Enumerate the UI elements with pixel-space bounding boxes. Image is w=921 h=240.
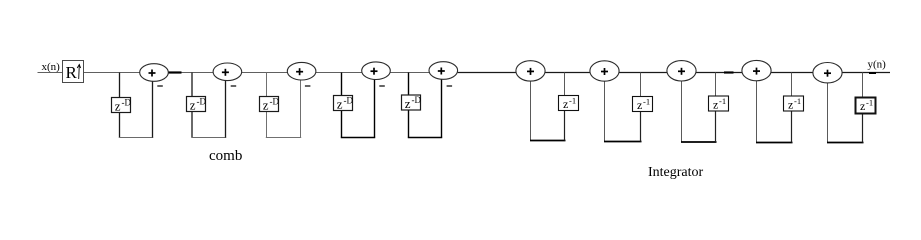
delay D8: integrator delay z^-1 xyxy=(709,96,729,112)
wire: main signal line, comb section xyxy=(38,72,459,74)
adder A3: comb summing junction xyxy=(287,62,316,80)
svg-text:z: z xyxy=(263,98,269,113)
adder A1: comb summing junction xyxy=(140,64,169,82)
adder A4: comb summing junction xyxy=(362,62,391,80)
svg-text:z: z xyxy=(788,98,793,112)
svg-text:z: z xyxy=(713,98,718,112)
wire: comb stage 3 bottom run to adder xyxy=(266,137,301,139)
delay D10: integrator delay z^-1 xyxy=(856,98,876,114)
wire: integrator stage 1 delay output drop to bottom run xyxy=(564,109,566,141)
wire: main signal line, integrator section xyxy=(458,72,890,74)
svg-text:z: z xyxy=(563,97,568,111)
wire: comb stage 1 bottom run to adder xyxy=(119,137,153,139)
wire: bold segment after comb adder A1 xyxy=(168,71,181,73)
delay D2: comb differential delay z^-D xyxy=(187,97,207,113)
block R1: rate-change (upsampler) box R&#8593; xyxy=(63,61,84,83)
delay D1: comb differential delay z^-D xyxy=(112,98,132,114)
adder A8: integrator summing junction xyxy=(667,61,696,81)
wire: integrator stage 1 drop below adder xyxy=(530,81,532,141)
svg-text:y(n): y(n) xyxy=(868,59,887,71)
wire: comb stage 4 tap drop (through delay) xyxy=(341,73,343,138)
wire: integrator stage 3 output tap drop to delay xyxy=(715,73,717,99)
wire: integrator stage 3 feedback bottom run xyxy=(681,141,717,143)
wire: integrator stage 4 delay output drop to bottom run xyxy=(791,109,793,143)
delay D5: comb differential delay z^-D xyxy=(402,95,422,111)
wire: comb stage 2 bottom run to adder xyxy=(191,137,226,139)
wire: integrator stage 5 drop below adder xyxy=(827,82,829,142)
svg-text:-D: -D xyxy=(412,95,422,105)
wire: integrator stage 4 drop below adder xyxy=(756,80,758,142)
wire: integrator stage 2 drop below adder xyxy=(604,81,606,142)
wire: integrator stage 1 output tap drop to delay xyxy=(564,73,566,98)
svg-text:R: R xyxy=(66,63,78,82)
svg-text:z: z xyxy=(637,98,642,112)
svg-text:z: z xyxy=(405,96,411,111)
wire: integrator stage 4 output tap drop to delay xyxy=(791,73,793,99)
wire: integrator stage 5 output tap drop to delay xyxy=(862,73,864,100)
wire: comb stage 5 bottom run to adder xyxy=(408,137,442,139)
adder A10: integrator summing junction xyxy=(813,62,842,82)
wire: integrator stage 5 delay output drop to bottom run xyxy=(862,111,864,143)
svg-text:z: z xyxy=(115,99,121,114)
delay D4: comb differential delay z^-D xyxy=(334,96,354,112)
adder A5: comb summing junction xyxy=(429,62,458,80)
label: minus sign at adder A2 subtract input xyxy=(231,85,237,87)
wire: integrator stage 5 feedback bottom run xyxy=(827,142,864,144)
wire: bold segment before integrator adder A9 xyxy=(724,71,734,73)
svg-text:-D: -D xyxy=(197,97,207,107)
svg-text:-1: -1 xyxy=(719,96,726,106)
svg-text:x(n): x(n) xyxy=(42,61,61,73)
svg-text:-1: -1 xyxy=(794,96,801,106)
delay D7: integrator delay z^-1 xyxy=(633,97,653,113)
label: minus sign at adder A4 subtract input xyxy=(379,85,385,87)
adder A2: comb summing junction xyxy=(213,63,242,81)
wire: integrator stage 3 delay output drop to bottom run xyxy=(715,109,717,142)
wire: integrator stage 1 feedback bottom run xyxy=(530,140,566,142)
adder A6: integrator summing junction xyxy=(516,61,545,81)
svg-text:z: z xyxy=(337,97,343,112)
svg-text:comb: comb xyxy=(209,148,242,164)
wire: integrator stage 4 feedback bottom run xyxy=(756,142,793,144)
wire: bold segment after y(n) tap xyxy=(869,72,876,74)
svg-text:-D: -D xyxy=(122,98,132,108)
svg-text:-1: -1 xyxy=(643,97,650,107)
wire: comb stage 5 tap drop (through delay) xyxy=(408,73,410,138)
label: minus sign at adder A5 subtract input xyxy=(447,85,453,87)
svg-text:-D: -D xyxy=(344,96,354,106)
adder A9: integrator summing junction xyxy=(742,60,771,80)
wire: comb stage 4 bottom run to adder xyxy=(341,137,375,139)
wire: integrator stage 2 output tap drop to delay xyxy=(640,73,642,99)
wire: comb stage 5 riser to adder minus input xyxy=(441,79,443,138)
wire: integrator stage 3 drop below adder xyxy=(681,81,683,143)
delay D9: integrator delay z^-1 xyxy=(784,96,804,112)
delay D3: comb differential delay z^-D xyxy=(260,97,280,113)
svg-text:-D: -D xyxy=(270,97,280,107)
wire: comb stage 2 tap drop (through delay) xyxy=(191,73,193,138)
adder A7: integrator summing junction xyxy=(590,61,619,81)
wire: comb stage 1 tap drop (through delay) xyxy=(119,73,121,138)
wire: integrator stage 2 delay output drop to bottom run xyxy=(640,110,642,142)
wire: comb stage 1 riser to adder minus input xyxy=(152,81,154,138)
svg-text:z: z xyxy=(860,99,865,113)
delay D6: integrator delay z^-1 xyxy=(559,96,579,112)
label: minus sign at adder A1 subtract input xyxy=(157,85,163,87)
label: minus sign at adder A3 subtract input xyxy=(305,85,311,87)
wire: comb stage 3 riser to adder minus input xyxy=(300,80,302,138)
wire: comb stage 2 riser to adder minus input xyxy=(225,80,227,137)
wire: integrator stage 2 feedback bottom run xyxy=(604,141,642,143)
svg-text:Integrator: Integrator xyxy=(648,165,704,180)
wire: comb stage 4 riser to adder minus input xyxy=(374,79,376,138)
wire: comb stage 3 tap drop (through delay) xyxy=(266,73,268,138)
svg-text:z: z xyxy=(190,98,196,113)
svg-text:-1: -1 xyxy=(569,96,576,106)
svg-text:-1: -1 xyxy=(866,98,873,108)
